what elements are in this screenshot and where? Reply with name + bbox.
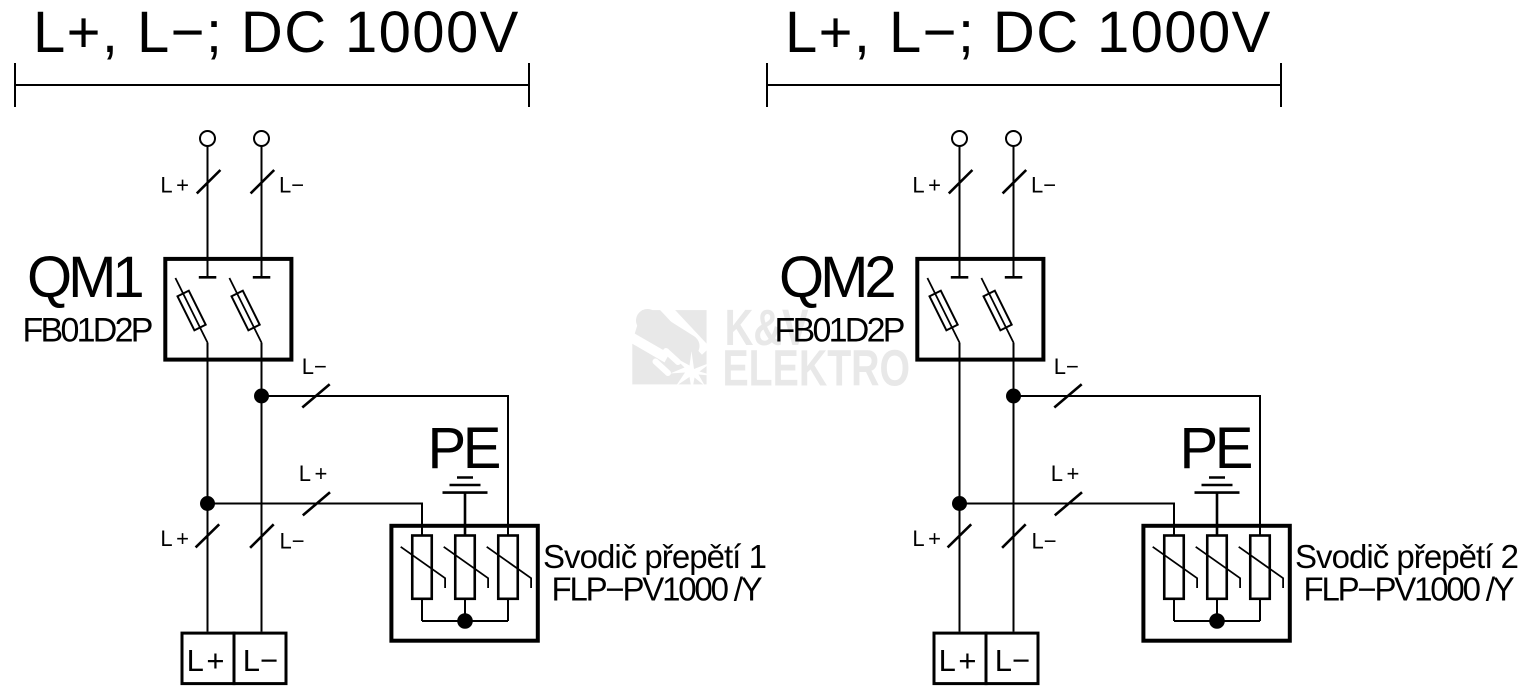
svg-text:L−: L− [279,172,304,197]
fuse 2 blade [229,278,261,343]
surge protector box [391,526,537,641]
wires varistor bottoms and common bus [422,599,508,621]
node L- junction [254,389,269,404]
wire L+ fuse to terminal block [207,343,209,632]
contact tick fuse 1 [199,276,217,279]
disconnect slash L+ branch [303,492,330,515]
fuse 2 body [232,291,260,331]
terminal block outline [182,633,286,684]
terminal circle L- [254,131,269,146]
svg-text:PE: PE [428,416,500,481]
svg-text:L+: L+ [187,643,227,678]
node SPD common point [457,613,473,629]
watermark logo square [629,303,715,392]
wire L- branch to SPD [262,396,509,536]
fuse 1 blade [175,278,207,343]
wire L+ branch to SPD [208,504,423,536]
PE earth symbol [443,478,488,536]
wire L- fuse to terminal block [261,343,263,632]
terminal block divider [233,632,236,686]
svg-text:L+, L−; DC 1000V: L+, L−; DC 1000V [33,0,520,65]
fuse 1 body [178,291,206,331]
svg-text:FLP−PV1000 /Y: FLP−PV1000 /Y [552,571,763,608]
svg-text:L−: L− [280,529,305,554]
varistor 3 slash [487,547,531,588]
svg-text:L+: L+ [160,526,192,551]
svg-text:L−: L− [243,643,278,678]
wire L- terminal to fuse [261,146,263,277]
fuse box QM [165,259,291,360]
svg-text:QM2: QM2 [779,245,894,310]
varistor 3 body [498,536,518,599]
svg-text:L+: L+ [299,461,331,486]
varistor 2 slash [444,547,488,588]
svg-text:FB01D2P: FB01D2P [23,312,152,350]
node L+ junction [200,496,215,511]
disconnect slash L- branch [302,384,329,407]
varistor 1 slash [401,547,445,588]
svg-text:QM1: QM1 [27,245,142,310]
dimension line [15,63,529,107]
varistor 1 body [412,536,432,599]
varistor 2 body [455,536,475,599]
disconnect slash L- top [251,170,275,193]
disconnect slash L+ top [197,170,221,193]
disconnect slash L+ lower [196,524,220,547]
contact tick fuse 2 [253,276,270,279]
terminal circle L+ [200,131,215,146]
wire L+ terminal to fuse [207,146,209,277]
svg-text:L+: L+ [160,172,192,197]
svg-text:L−: L− [302,354,327,379]
disconnect slash L- lower [250,524,274,548]
svg-text:FLP−PV1000 /Y: FLP−PV1000 /Y [1304,571,1515,608]
circuit 2 graphics (copy of circuit 1) [767,0,1290,685]
